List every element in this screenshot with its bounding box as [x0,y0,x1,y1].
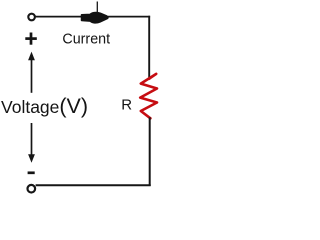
wire right upper [148,16,150,80]
svg-text:Current: Current [62,32,110,48]
voltage up arrow [28,52,35,93]
wire bottom [36,184,151,186]
minus sign [28,171,35,174]
resistor R zigzag [140,74,157,118]
wire top-left segment [36,16,84,18]
wire right lower [149,117,151,186]
terminal bottom-left (-) [28,185,36,193]
svg-text:Voltage(V): Voltage(V) [1,94,88,118]
terminal top-left (+) [28,14,35,21]
wire top-right segment [108,16,150,18]
voltage down arrow [28,123,35,163]
plus sign [25,33,37,45]
svg-text:R: R [121,97,132,114]
tick line above arrow [96,2,98,14]
current direction arrow [82,13,108,23]
